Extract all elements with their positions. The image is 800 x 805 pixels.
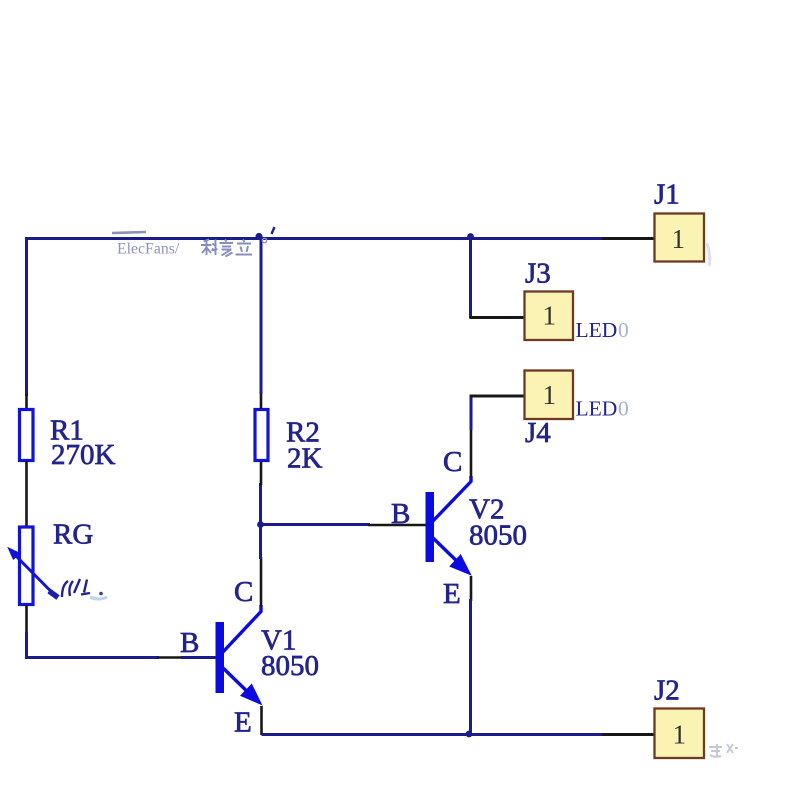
- transistor V1 emitter arrowhead: [240, 684, 263, 706]
- transistor V2 base bar: [426, 492, 435, 562]
- svg-text:0: 0: [618, 318, 629, 342]
- svg-text:J2: J2: [654, 675, 680, 707]
- transistor V1 emitter stroke: [222, 667, 256, 700]
- wire RG bottom pin: [25, 605, 28, 634]
- wire bottom black stub to J2: [602, 733, 655, 736]
- watermark smear above top wire: [112, 232, 146, 233]
- node mid junction: [257, 521, 264, 528]
- svg-text:8050: 8050: [469, 520, 527, 552]
- wire V1 collector to mid junction: [259, 524, 262, 559]
- svg-text:1: 1: [672, 224, 686, 254]
- wire J4 stub black: [470, 395, 526, 398]
- watermark remnant right of J2: [709, 744, 738, 757]
- resistor R2: [255, 410, 268, 461]
- svg-text:J4: J4: [525, 417, 551, 449]
- wire J3 stub black: [470, 316, 526, 319]
- svg-text:B: B: [180, 627, 199, 659]
- wire top horizontal net: [25, 237, 602, 240]
- svg-text:1: 1: [673, 720, 687, 750]
- wire R1 top pin: [25, 394, 28, 409]
- svg-text:8050: 8050: [261, 650, 319, 682]
- wire RG to V1 base corner: [25, 632, 159, 658]
- transistor V2 emitter arrowhead: [449, 554, 472, 576]
- svg-text:0: 0: [618, 397, 629, 421]
- watermark faint streak right of J1: [707, 243, 710, 266]
- wire J1 net vertical: [469, 238, 472, 318]
- wire top black stub to J1: [602, 237, 655, 240]
- wire base black segment: [157, 656, 183, 659]
- wire R1 to RG black: [25, 461, 28, 527]
- watermark tick right of junction: [272, 227, 275, 234]
- svg-text:C: C: [443, 446, 462, 478]
- photoresistor RG body: [20, 527, 34, 605]
- svg-text:1: 1: [543, 301, 557, 331]
- connector J3 box: [525, 292, 574, 341]
- svg-text:ElecFans/: ElecFans/: [117, 241, 180, 258]
- watermark hanzi ke: [201, 240, 218, 256]
- connector J4 box: [525, 371, 574, 420]
- wire base pin to V1: [181, 656, 216, 659]
- transistor V2 collector stroke: [432, 476, 471, 522]
- wire V2 emitter to bottom net: [469, 599, 472, 734]
- svg-text:E: E: [443, 578, 461, 610]
- svg-text:270K: 270K: [51, 439, 116, 471]
- wire V2 collector black segment: [470, 428, 473, 478]
- wire V2 base black segment: [368, 524, 426, 527]
- svg-text:RG: RG: [53, 519, 93, 551]
- watermark degree mark: [262, 238, 266, 242]
- wire R2 top to top net: [260, 237, 263, 394]
- svg-text:B: B: [391, 498, 410, 530]
- connector J1 box: [655, 214, 705, 262]
- watermark hanzi li: [236, 240, 253, 255]
- resistor R1: [20, 410, 34, 461]
- svg-text:LED: LED: [576, 397, 618, 421]
- photoresistor RG arrow: [15, 555, 56, 597]
- svg-text:E: E: [234, 707, 252, 739]
- svg-text:J3: J3: [525, 258, 551, 290]
- wire left vertical: [25, 237, 28, 396]
- wire V2 collector up to J4 corner: [470, 395, 473, 430]
- transistor V1 base bar: [216, 622, 225, 693]
- wire R2 top pin: [260, 392, 263, 409]
- wire mid junction to V2 base navy: [262, 523, 370, 526]
- transistor V2 emitter stroke: [432, 537, 466, 570]
- node bottom junction: [466, 731, 473, 738]
- wire bottom horizontal net: [262, 733, 603, 736]
- svg-text:C: C: [234, 576, 253, 608]
- transistor V1 collector stroke: [222, 605, 261, 653]
- connector J2 box: [655, 709, 705, 759]
- svg-text:J1: J1: [654, 179, 680, 211]
- node top junction at J1 column: [467, 233, 474, 240]
- wire V2 emitter black pin: [470, 576, 473, 601]
- wire V1 emitter black pin: [260, 706, 263, 735]
- wire R2 bottom pin: [260, 461, 263, 485]
- watermark remnant scribble near RG: [62, 579, 90, 597]
- watermark hanzi yan: [220, 240, 234, 257]
- svg-text:1: 1: [543, 380, 557, 410]
- wire V1 collector black segment: [260, 557, 263, 607]
- wire mid junction to R2 navy: [259, 483, 262, 526]
- node top junction at R2 column: [255, 233, 262, 240]
- svg-text:2K: 2K: [287, 443, 323, 475]
- svg-text:LED: LED: [576, 318, 618, 342]
